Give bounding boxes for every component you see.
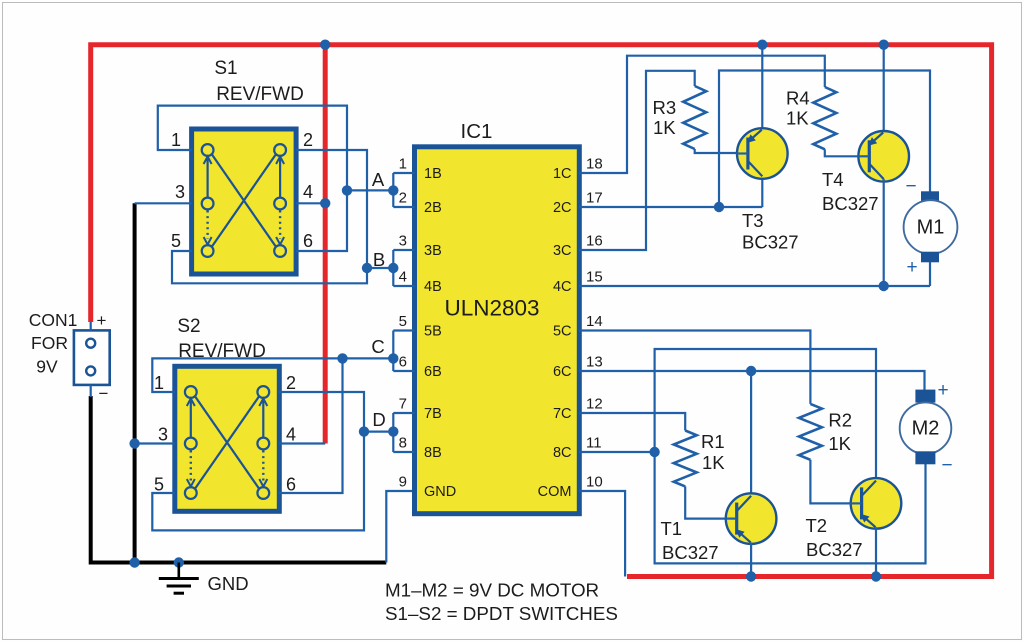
- svg-text:B: B: [373, 249, 385, 270]
- svg-text:13: 13: [586, 354, 603, 371]
- svg-text:1K: 1K: [702, 452, 725, 473]
- svg-text:4: 4: [303, 182, 313, 202]
- svg-text:6B: 6B: [424, 364, 442, 380]
- svg-text:2: 2: [303, 130, 313, 150]
- svg-text:6C: 6C: [553, 364, 572, 380]
- svg-text:2C: 2C: [553, 200, 572, 216]
- svg-text:A: A: [372, 169, 385, 190]
- svg-text:R3: R3: [653, 97, 677, 118]
- svg-text:BC327: BC327: [822, 193, 879, 214]
- svg-text:D: D: [372, 409, 385, 430]
- svg-text:M2: M2: [912, 418, 940, 440]
- svg-text:+: +: [906, 257, 917, 278]
- svg-text:COM: COM: [538, 484, 572, 500]
- svg-text:IC1: IC1: [461, 120, 493, 143]
- svg-text:M1: M1: [917, 217, 945, 239]
- svg-text:BC327: BC327: [662, 542, 719, 563]
- svg-text:8: 8: [399, 435, 407, 452]
- svg-text:3B: 3B: [424, 243, 442, 259]
- svg-text:T1: T1: [661, 518, 683, 539]
- svg-text:1C: 1C: [553, 166, 572, 182]
- svg-text:3: 3: [175, 182, 185, 202]
- svg-text:1: 1: [154, 373, 164, 393]
- svg-text:FOR: FOR: [31, 333, 68, 353]
- svg-text:−: −: [905, 176, 916, 197]
- svg-text:1B: 1B: [424, 166, 442, 182]
- svg-text:7: 7: [399, 396, 407, 413]
- svg-text:6: 6: [286, 475, 296, 495]
- svg-text:4C: 4C: [553, 279, 572, 295]
- svg-text:17: 17: [586, 190, 603, 207]
- svg-text:C: C: [371, 336, 384, 357]
- svg-text:R1: R1: [701, 431, 725, 452]
- svg-text:CON1: CON1: [29, 310, 78, 330]
- svg-text:+: +: [937, 380, 948, 401]
- svg-text:1K: 1K: [828, 433, 851, 454]
- svg-text:5: 5: [154, 475, 164, 495]
- svg-text:−: −: [941, 455, 952, 476]
- svg-text:14: 14: [586, 313, 603, 330]
- svg-text:M1–M2 = 9V DC MOTOR: M1–M2 = 9V DC MOTOR: [385, 580, 599, 601]
- svg-text:T3: T3: [742, 210, 764, 231]
- svg-text:REV/FWD: REV/FWD: [216, 84, 304, 105]
- svg-text:5: 5: [171, 231, 181, 251]
- svg-text:5: 5: [399, 313, 407, 330]
- svg-text:6: 6: [399, 354, 407, 371]
- svg-text:4: 4: [286, 425, 296, 445]
- svg-text:4B: 4B: [424, 279, 442, 295]
- svg-text:BC327: BC327: [806, 539, 863, 560]
- svg-text:3: 3: [158, 425, 168, 445]
- svg-text:−: −: [99, 384, 109, 403]
- svg-text:6: 6: [303, 231, 313, 251]
- svg-text:GND: GND: [207, 573, 248, 594]
- svg-text:1: 1: [399, 156, 407, 173]
- svg-text:3C: 3C: [553, 243, 572, 259]
- svg-text:2: 2: [399, 190, 407, 207]
- svg-text:R2: R2: [828, 410, 852, 431]
- svg-text:11: 11: [586, 435, 602, 452]
- svg-text:7B: 7B: [424, 406, 442, 422]
- svg-text:8C: 8C: [553, 445, 572, 461]
- svg-text:18: 18: [586, 156, 603, 173]
- svg-text:S1: S1: [214, 58, 237, 79]
- svg-text:2B: 2B: [424, 200, 442, 216]
- svg-text:1: 1: [171, 130, 181, 150]
- svg-text:9V: 9V: [36, 357, 58, 377]
- svg-text:8B: 8B: [424, 445, 442, 461]
- svg-text:GND: GND: [424, 484, 456, 500]
- svg-text:ULN2803: ULN2803: [444, 296, 539, 321]
- svg-text:5C: 5C: [553, 324, 572, 340]
- svg-text:4: 4: [399, 269, 407, 286]
- svg-text:16: 16: [586, 233, 603, 250]
- svg-text:15: 15: [586, 269, 603, 286]
- svg-text:2: 2: [286, 373, 296, 393]
- svg-text:1K: 1K: [786, 108, 809, 129]
- svg-text:5B: 5B: [424, 324, 442, 340]
- svg-text:1K: 1K: [653, 117, 676, 138]
- svg-text:T4: T4: [822, 169, 844, 190]
- svg-text:+: +: [97, 311, 107, 330]
- svg-text:S1–S2 = DPDT SWITCHES: S1–S2 = DPDT SWITCHES: [385, 603, 618, 624]
- svg-text:R4: R4: [786, 88, 810, 109]
- svg-text:10: 10: [586, 474, 603, 491]
- svg-text:T2: T2: [806, 515, 828, 536]
- svg-text:BC327: BC327: [742, 232, 799, 253]
- svg-text:9: 9: [399, 474, 407, 491]
- svg-text:3: 3: [399, 233, 407, 250]
- svg-text:S2: S2: [177, 316, 200, 337]
- svg-text:7C: 7C: [553, 406, 572, 422]
- svg-text:12: 12: [586, 396, 603, 413]
